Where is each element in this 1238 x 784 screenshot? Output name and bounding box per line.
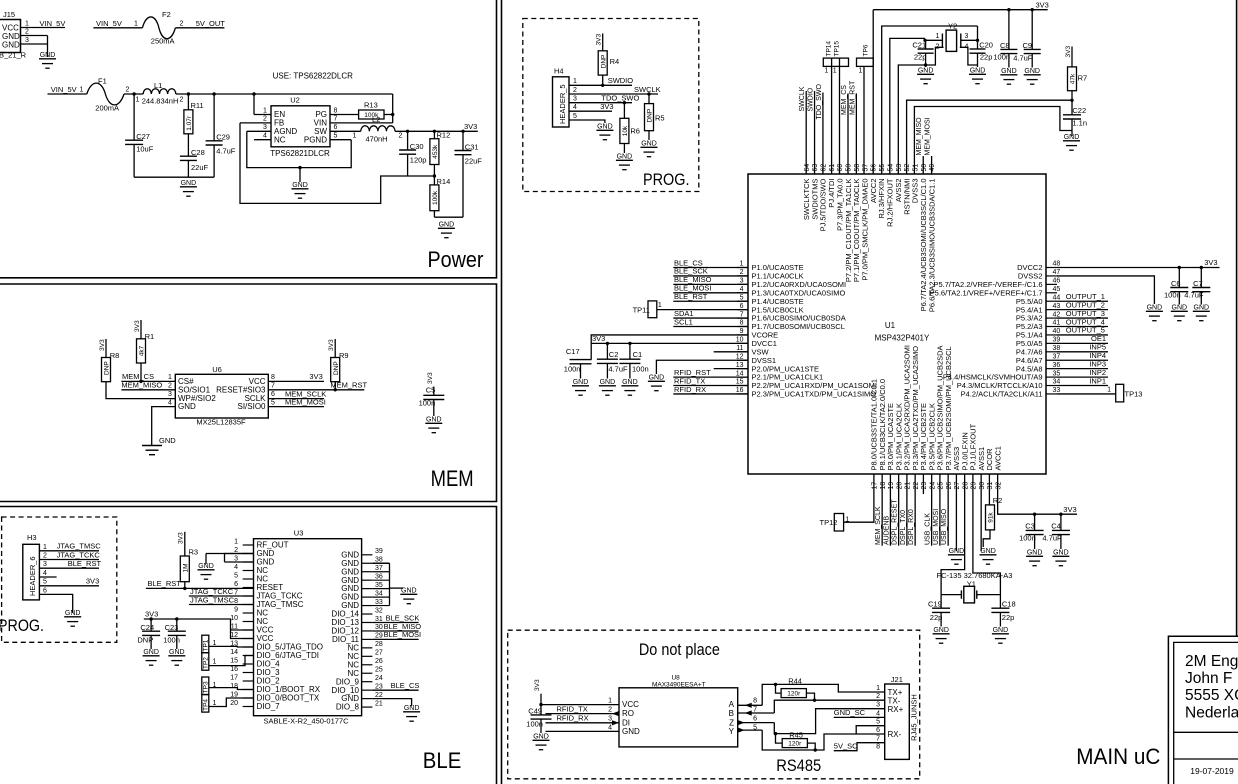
svg-text:RO: RO <box>622 709 634 718</box>
svg-text:6: 6 <box>334 124 338 131</box>
svg-text:C5: C5 <box>426 386 436 395</box>
svg-text:1: 1 <box>936 33 940 40</box>
svg-text:C29: C29 <box>216 133 230 142</box>
svg-text:60: 60 <box>837 164 844 172</box>
svg-text:1: 1 <box>263 107 267 114</box>
svg-text:C9: C9 <box>1023 41 1033 50</box>
svg-text:100n: 100n <box>993 53 1010 62</box>
svg-text:22p: 22p <box>914 53 927 62</box>
svg-text:18: 18 <box>880 482 887 490</box>
svg-text:100n: 100n <box>1019 534 1036 543</box>
svg-text:16: 16 <box>230 666 238 673</box>
svg-text:61: 61 <box>829 164 836 172</box>
svg-text:AVCC1: AVCC1 <box>993 446 1002 470</box>
svg-text:14: 14 <box>736 370 744 377</box>
svg-text:22p: 22p <box>1002 613 1015 622</box>
svg-text:36: 36 <box>1053 362 1061 369</box>
U3 pin 22 ground wire <box>372 699 411 706</box>
svg-text:1: 1 <box>845 517 849 524</box>
svg-text:200mA: 200mA <box>95 104 119 113</box>
net DSPL_RX0 wire U1 pin 22 <box>914 474 916 546</box>
U1 pin 32 AVCC1 wire to 3V3 <box>998 474 1077 514</box>
svg-text:1: 1 <box>608 698 612 705</box>
svg-text:2: 2 <box>180 97 184 104</box>
svg-text:B_21_R: B_21_R <box>0 51 27 60</box>
svg-text:63: 63 <box>812 164 819 172</box>
svg-text:BLE_CS: BLE_CS <box>391 681 420 690</box>
U1 pin 23 stub <box>922 474 924 494</box>
capacitor C27 <box>133 94 135 140</box>
svg-text:36: 36 <box>375 573 383 580</box>
svg-text:21: 21 <box>905 482 912 490</box>
U6 pin 7 wire net MEM_RST <box>268 389 364 391</box>
svg-text:44: 44 <box>1053 294 1061 301</box>
svg-text:56: 56 <box>871 164 878 172</box>
svg-text:15: 15 <box>230 657 238 664</box>
title block frame <box>1168 636 1238 784</box>
svg-text:PGND: PGND <box>304 135 327 144</box>
wire input gnd rail <box>134 176 214 178</box>
svg-text:3: 3 <box>168 391 172 398</box>
svg-text:R3: R3 <box>189 548 199 557</box>
net USB_CLK wire U1 pin 24 <box>931 474 933 546</box>
svg-text:43: 43 <box>1053 303 1061 310</box>
U1 pin 12 DVSS1 wire to ground <box>656 360 748 374</box>
test point TP13 on U1 pin 33 <box>1057 393 1116 395</box>
regulator U2 TPS62821DLCR <box>271 106 330 147</box>
svg-text:3: 3 <box>263 124 267 131</box>
svg-text:P4.2/ACLK/TA2CLK/A11: P4.2/ACLK/TA2CLK/A11 <box>961 390 1043 399</box>
svg-text:21: 21 <box>375 700 383 707</box>
test point TP14 TP15 on U1 pins 61 60 <box>823 58 848 66</box>
svg-text:3V3: 3V3 <box>534 679 541 691</box>
svg-text:DNP: DNP <box>600 55 607 69</box>
svg-text:DNP: DNP <box>333 361 340 375</box>
svg-text:TP4: TP4 <box>202 699 209 711</box>
svg-text:4: 4 <box>573 104 577 111</box>
svg-text:27: 27 <box>375 650 383 657</box>
net MEM_SCLK wire U1 pin 18 <box>881 474 883 546</box>
svg-text:1: 1 <box>213 659 217 666</box>
test point TP12 wire U1 pin 17 <box>844 474 874 522</box>
svg-text:3V3: 3V3 <box>427 372 434 384</box>
svg-text:C18: C18 <box>1002 600 1016 609</box>
svg-text:BLE_MOSI: BLE_MOSI <box>384 630 422 639</box>
svg-text:R8: R8 <box>110 351 120 360</box>
svg-text:MEM: MEM <box>431 466 474 491</box>
svg-text:C20: C20 <box>979 41 993 50</box>
svg-text:SWCLK: SWCLK <box>634 85 661 94</box>
ground for U2 <box>299 168 301 182</box>
svg-text:GND: GND <box>159 436 176 445</box>
svg-text:25: 25 <box>375 667 383 674</box>
svg-text:B: B <box>729 709 734 718</box>
svg-text:P6.6/TA2.3/UCB3SIMO/UCB3SDA/C1: P6.6/TA2.3/UCB3SIMO/UCB3SDA/C1.1 <box>927 179 936 313</box>
svg-text:31: 31 <box>987 482 994 490</box>
U6 pin 8 wire net 3V3 <box>268 380 324 382</box>
svg-text:4k7: 4k7 <box>139 345 146 356</box>
resistor R5 DNP <box>648 94 650 104</box>
U8 pin Y wire to RX- <box>738 729 763 731</box>
test point TP1 <box>202 635 209 653</box>
net MEM_CS wire U1 pin 59 <box>847 93 849 174</box>
svg-text:2: 2 <box>399 132 403 139</box>
svg-text:GND: GND <box>292 182 308 189</box>
svg-text:3V3: 3V3 <box>600 102 613 111</box>
svg-text:C8: C8 <box>1000 41 1010 50</box>
U1 pin 30 AVSS1 wire to ground <box>980 474 982 551</box>
U8 pin 4 GND wire <box>546 730 620 732</box>
J15 pin 1 wire net VIN_5V <box>21 27 66 29</box>
svg-text:120p: 120p <box>410 156 427 165</box>
net MEM_MOSI wire U1 pin 49 <box>931 156 933 174</box>
svg-text:40: 40 <box>1053 328 1061 335</box>
svg-text:BLE: BLE <box>423 748 462 773</box>
svg-text:2: 2 <box>168 383 172 390</box>
svg-text:U8: U8 <box>671 675 680 682</box>
svg-text:TP13: TP13 <box>1125 390 1143 399</box>
test point TP3 <box>202 677 209 695</box>
svg-text:100n: 100n <box>632 365 649 374</box>
svg-text:10uF: 10uF <box>136 145 154 154</box>
svg-text:U1: U1 <box>885 321 896 330</box>
net SWCLK wire U1 pin 64 <box>805 91 807 174</box>
svg-text:1: 1 <box>573 78 577 85</box>
Power section frame <box>0 0 497 278</box>
svg-text:R4: R4 <box>610 57 620 66</box>
svg-text:DIO_7: DIO_7 <box>257 702 281 711</box>
svg-text:JTAG_TMSC: JTAG_TMSC <box>190 595 235 604</box>
net SWDIO wire U1 pin 63 <box>814 91 816 174</box>
svg-text:R5: R5 <box>655 114 665 123</box>
svg-text:12: 12 <box>230 632 238 639</box>
J21 pins 5 6 join <box>856 726 885 734</box>
svg-text:R9: R9 <box>339 351 349 360</box>
svg-text:2: 2 <box>573 87 577 94</box>
svg-text:3V3: 3V3 <box>99 339 106 351</box>
svg-text:3V3: 3V3 <box>1065 46 1072 58</box>
svg-text:4.7uF: 4.7uF <box>608 365 628 374</box>
svg-text:53: 53 <box>896 164 903 172</box>
svg-text:5: 5 <box>271 399 275 406</box>
svg-text:C17: C17 <box>566 347 580 356</box>
test point TP4 <box>202 695 209 713</box>
svg-text:GND: GND <box>641 141 657 148</box>
svg-text:R1: R1 <box>145 332 155 341</box>
svg-text:MAIN uC: MAIN uC <box>1076 744 1160 769</box>
svg-text:9: 9 <box>740 328 744 335</box>
capacitor C6 <box>1178 268 1180 288</box>
svg-text:F1: F1 <box>98 77 107 86</box>
svg-text:2: 2 <box>25 29 29 36</box>
svg-text:2: 2 <box>608 707 612 714</box>
svg-text:R7: R7 <box>1078 74 1088 83</box>
svg-text:34: 34 <box>375 590 383 597</box>
fuse F1 <box>87 83 124 105</box>
svg-text:RFID_RX: RFID_RX <box>674 385 706 394</box>
svg-text:8: 8 <box>334 107 338 114</box>
svg-text:5V_OUT: 5V_OUT <box>196 19 226 28</box>
connector J15 <box>0 20 21 53</box>
Do not place dashed box <box>508 630 920 779</box>
svg-text:9: 9 <box>234 606 238 613</box>
svg-text:SWDIO: SWDIO <box>608 76 634 85</box>
svg-text:5: 5 <box>876 719 880 726</box>
svg-text:Nederlar: Nederlar <box>1185 705 1238 722</box>
svg-text:GND: GND <box>597 124 613 131</box>
svg-text:1: 1 <box>876 685 880 692</box>
U1 pin 27 AVSS3 wire to ground <box>955 474 957 551</box>
svg-text:470nH: 470nH <box>366 134 388 143</box>
svg-text:6: 6 <box>43 587 47 594</box>
svg-text:GND: GND <box>617 154 633 161</box>
wire 3V3 rail to U1 pin 56 AVCC2 <box>872 10 874 174</box>
svg-text:TP3: TP3 <box>202 681 209 693</box>
svg-text:250mA: 250mA <box>151 37 175 46</box>
svg-text:4.7uF: 4.7uF <box>1013 54 1033 63</box>
svg-text:2: 2 <box>126 87 130 94</box>
svg-text:29: 29 <box>971 482 978 490</box>
svg-text:MEM_RST: MEM_RST <box>849 80 856 115</box>
svg-text:R13: R13 <box>364 101 378 110</box>
svg-text:32: 32 <box>375 607 383 614</box>
svg-text:58: 58 <box>854 164 861 172</box>
svg-text:JTAG_TCKC: JTAG_TCKC <box>57 550 101 559</box>
U6 pin 6 wire net MEM_SCLK <box>268 398 324 400</box>
svg-text:TDO_SWO: TDO_SWO <box>816 84 823 120</box>
svg-text:AUDENB: AUDENB <box>883 515 890 545</box>
svg-text:MEM_MISO: MEM_MISO <box>121 381 162 390</box>
svg-text:MSP432P401Y: MSP432P401Y <box>875 334 930 343</box>
wire U1 pin 52 RSTN to R7 C22 <box>907 100 1072 174</box>
svg-text:VIN_5V: VIN_5V <box>51 85 77 94</box>
svg-text:1: 1 <box>136 97 140 104</box>
svg-text:37: 37 <box>375 565 383 572</box>
svg-text:DIO_8: DIO_8 <box>336 703 360 712</box>
wire TP14 to U1 pin 61 <box>831 66 833 174</box>
svg-text:USB_MOSI: USB_MOSI <box>933 509 940 545</box>
svg-text:USB_CLK: USB_CLK <box>925 513 932 545</box>
svg-text:RFID_TX: RFID_TX <box>557 704 588 713</box>
U1 pin 11 VSW stub <box>714 351 748 353</box>
svg-text:28: 28 <box>962 482 969 490</box>
test point TP6 on U1 pin 57 <box>857 58 874 66</box>
svg-text:3: 3 <box>573 96 577 103</box>
MEM section frame <box>0 284 497 502</box>
svg-text:3V3: 3V3 <box>592 334 605 343</box>
svg-text:C22: C22 <box>1072 106 1086 115</box>
svg-text:8: 8 <box>753 698 757 705</box>
U3 left pins 1-20 <box>243 544 254 546</box>
svg-text:4: 4 <box>234 564 238 571</box>
svg-text:GND: GND <box>1001 68 1017 75</box>
svg-text:42: 42 <box>1053 311 1061 318</box>
svg-text:VIN_5V: VIN_5V <box>40 19 66 28</box>
svg-text:50: 50 <box>921 164 928 172</box>
resistor R11 <box>187 94 189 110</box>
capacitor C30 <box>407 131 409 150</box>
svg-text:5: 5 <box>573 113 577 120</box>
svg-text:16: 16 <box>736 387 744 394</box>
resistor R13 <box>359 110 384 119</box>
svg-text:4: 4 <box>876 710 880 717</box>
svg-text:3: 3 <box>25 37 29 44</box>
svg-text:C7: C7 <box>1193 279 1203 288</box>
svg-text:VIN_5V: VIN_5V <box>96 19 122 28</box>
wire 5V rail to U2 <box>176 93 393 95</box>
svg-text:22p: 22p <box>980 53 993 62</box>
svg-text:MEM_CS: MEM_CS <box>841 85 848 115</box>
svg-text:24: 24 <box>929 482 936 490</box>
svg-text:RFID_RX: RFID_RX <box>557 714 589 723</box>
svg-text:DSPL_RESET: DSPL_RESET <box>892 499 899 545</box>
svg-text:7: 7 <box>234 589 238 596</box>
svg-text:22p: 22p <box>930 613 943 622</box>
svg-text:8: 8 <box>876 744 880 751</box>
net DSPL_TX0 wire U1 pin 21 <box>906 474 908 546</box>
svg-text:DNP: DNP <box>647 109 654 123</box>
svg-text:GND: GND <box>970 68 986 75</box>
svg-text:1: 1 <box>43 544 47 551</box>
svg-text:R44: R44 <box>788 676 802 685</box>
svg-text:5: 5 <box>234 572 238 579</box>
net 3V3 rail top with label <box>873 9 1047 11</box>
svg-text:6: 6 <box>753 716 757 723</box>
svg-text:NC: NC <box>274 135 286 144</box>
svg-text:25: 25 <box>938 482 945 490</box>
U6 pin 4 ground wire <box>152 407 176 446</box>
svg-text:1: 1 <box>353 132 357 139</box>
svg-text:TP15: TP15 <box>833 41 840 57</box>
test point TP2 <box>202 653 209 671</box>
capacitor C1 <box>629 343 631 359</box>
svg-text:46: 46 <box>1053 278 1061 285</box>
svg-text:RJ45_JUNSH: RJ45_JUNSH <box>910 694 919 741</box>
svg-text:TP6: TP6 <box>863 44 870 56</box>
svg-text:DNP: DNP <box>104 361 111 375</box>
svg-text:39: 39 <box>375 548 383 555</box>
svg-text:30: 30 <box>979 482 986 490</box>
net 3V3 wire U1 pin 48 <box>1057 267 1220 269</box>
svg-text:DSPL_TX0: DSPL_TX0 <box>900 510 907 545</box>
U1 pin 13 stub <box>714 368 748 370</box>
svg-text:U3: U3 <box>294 529 304 538</box>
U3 pin 2 3 ground wires <box>225 554 254 563</box>
svg-text:2: 2 <box>43 553 47 560</box>
svg-text:35: 35 <box>375 582 383 589</box>
svg-text:59: 59 <box>846 164 853 172</box>
net USB_MOSI wire U1 pin 25 <box>939 474 941 546</box>
svg-text:Y: Y <box>729 727 735 736</box>
svg-text:PROG.: PROG. <box>0 616 44 635</box>
svg-text:6: 6 <box>271 391 275 398</box>
svg-text:33: 33 <box>375 599 383 606</box>
svg-text:1.07r: 1.07r <box>186 115 193 131</box>
capacitor C9 <box>1031 10 1033 50</box>
BLE PROG dashed box <box>2 517 117 642</box>
svg-text:7: 7 <box>271 383 275 390</box>
svg-text:L1: L1 <box>154 81 162 90</box>
svg-text:U2: U2 <box>290 96 300 105</box>
svg-text:2: 2 <box>740 269 744 276</box>
svg-text:MEM_MISO: MEM_MISO <box>916 117 923 156</box>
svg-text:SWDIO: SWDIO <box>808 87 815 111</box>
svg-text:BLE_RST: BLE_RST <box>674 292 708 301</box>
svg-text:120r: 120r <box>788 741 802 748</box>
inductor L1 <box>143 89 176 94</box>
J21 pins 7 8 join with net 5V_SC <box>834 743 885 751</box>
svg-text:U6: U6 <box>212 365 222 374</box>
svg-text:RX-: RX- <box>888 730 902 739</box>
svg-text:GND: GND <box>622 727 640 736</box>
svg-text:5: 5 <box>740 294 744 301</box>
svg-text:8: 8 <box>234 598 238 605</box>
svg-text:1: 1 <box>825 68 829 75</box>
svg-text:100n: 100n <box>564 365 581 374</box>
svg-text:19: 19 <box>230 691 238 698</box>
svg-text:C6: C6 <box>1171 279 1181 288</box>
svg-text:19-07-2019: 19-07-2019 <box>1190 766 1234 776</box>
U1 left pin names and numbers 1-16 <box>737 267 748 269</box>
svg-text:54: 54 <box>887 164 894 172</box>
svg-text:5: 5 <box>334 133 338 140</box>
svg-text:USB_MISO: USB_MISO <box>941 508 948 545</box>
capacitor C3 <box>1034 514 1036 530</box>
svg-text:23: 23 <box>375 683 383 690</box>
U8 pin B wire to TX- <box>738 712 775 714</box>
svg-text:C19: C19 <box>928 600 942 609</box>
svg-text:GND: GND <box>2 40 20 49</box>
svg-text:4.7uF: 4.7uF <box>216 147 236 156</box>
resistor R6 10k <box>623 103 625 119</box>
svg-text:45: 45 <box>1053 286 1061 293</box>
net AUDENB wire U1 pin 19 <box>889 474 891 546</box>
svg-text:2: 2 <box>876 693 880 700</box>
U1 right pin names and numbers 48-33 <box>1046 267 1057 269</box>
svg-text:22: 22 <box>375 692 383 699</box>
svg-text:5V_SC: 5V_SC <box>834 742 858 751</box>
svg-text:1: 1 <box>234 538 238 545</box>
svg-text:47: 47 <box>1053 269 1061 276</box>
svg-text:17: 17 <box>872 482 879 490</box>
svg-text:JTAG_TMSC: JTAG_TMSC <box>57 542 102 551</box>
BLE section frame <box>0 507 497 784</box>
svg-text:47k: 47k <box>1070 73 1077 84</box>
svg-text:USE: TPS62822DLCR: USE: TPS62822DLCR <box>273 72 354 81</box>
svg-text:100k: 100k <box>432 190 439 205</box>
svg-text:6: 6 <box>234 581 238 588</box>
svg-text:14: 14 <box>230 649 238 656</box>
flash memory U6 MX25L12835F <box>175 374 268 418</box>
svg-text:3V3: 3V3 <box>1036 1 1049 10</box>
svg-text:3: 3 <box>234 555 238 562</box>
svg-text:3: 3 <box>740 278 744 285</box>
wire U1 pin 54 HFXOUT to crystal pin 1 <box>890 38 925 174</box>
svg-text:55: 55 <box>879 164 886 172</box>
svg-text:22uF: 22uF <box>191 163 209 172</box>
U8 pin Z wire to RX+ <box>738 722 775 724</box>
svg-text:15: 15 <box>736 379 744 386</box>
svg-text:4: 4 <box>740 286 744 293</box>
svg-text:39: 39 <box>1053 337 1061 344</box>
svg-text:7: 7 <box>876 736 880 743</box>
svg-text:3: 3 <box>876 702 880 709</box>
svg-text:INP1: INP1 <box>1089 376 1106 385</box>
svg-text:91k: 91k <box>988 512 995 523</box>
svg-text:TP2: TP2 <box>202 657 209 669</box>
U3 right pins 39-21 <box>362 554 373 556</box>
svg-text:62: 62 <box>821 164 828 172</box>
